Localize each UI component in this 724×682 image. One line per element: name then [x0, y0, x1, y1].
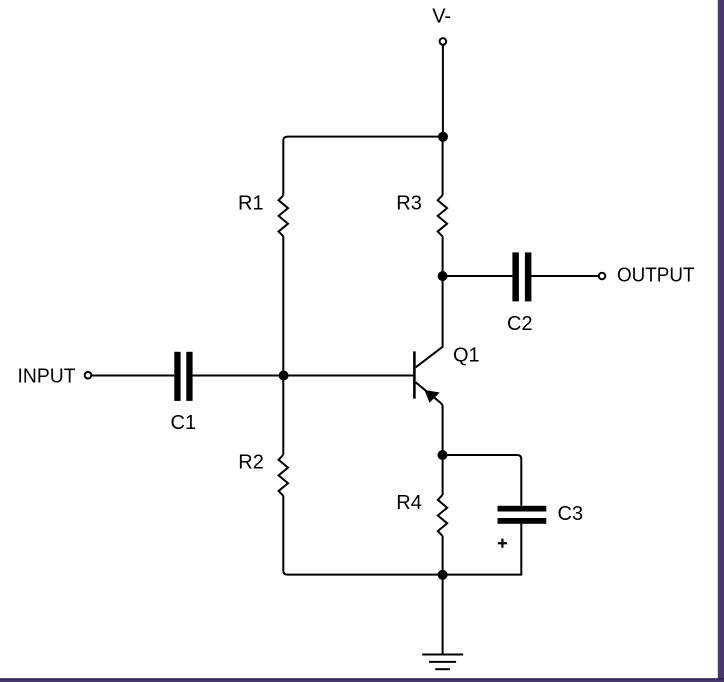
resistor R4 [438, 495, 447, 536]
wire V- terminal to node A [442, 45, 444, 137]
capacitor C3 [498, 506, 547, 524]
svg-text:R1: R1 [238, 193, 264, 215]
wire node A to R3 top [442, 137, 444, 196]
capacitor C1 [174, 352, 192, 401]
svg-text:Q1: Q1 [453, 344, 480, 366]
wire C2 to OUTPUT terminal [531, 275, 598, 277]
wire Q1 collector to node C [442, 276, 444, 348]
terminal OUTPUT [599, 273, 606, 280]
node B (base junction) [279, 371, 289, 381]
wire node D to C3 top (with corner) [443, 455, 522, 506]
node E (ground junction) [438, 570, 448, 580]
svg-text:OUTPUT: OUTPUT [617, 264, 695, 286]
wire node B to R2 top [282, 376, 284, 455]
svg-text:R4: R4 [396, 492, 422, 514]
transistor Q1 [413, 347, 443, 410]
wire node E to ground [442, 575, 444, 655]
wire R3 bottom to node C [442, 236, 444, 276]
svg-text:C3: C3 [558, 503, 584, 525]
svg-text:V-: V- [432, 6, 451, 28]
svg-text:C2: C2 [507, 313, 533, 335]
node A (junction) [438, 132, 448, 142]
ground [422, 655, 463, 670]
resistor R1 [279, 195, 288, 236]
svg-text:C1: C1 [171, 412, 197, 434]
terminal V- [440, 38, 447, 45]
wire R1 bottom to node B [282, 236, 284, 375]
polarity + mark [498, 539, 507, 548]
wire INPUT terminal to C1 [92, 375, 175, 377]
resistor R2 [279, 455, 288, 496]
resistor R3 [438, 195, 447, 236]
wire Q1 emitter to node D [442, 406, 444, 455]
svg-text:INPUT: INPUT [18, 366, 76, 388]
window frame right edge [718, 0, 724, 682]
node D (emitter junction) [438, 450, 448, 460]
wire R2 bottom along bottom rail to C3 bottom (with corners) [283, 496, 521, 575]
svg-text:R2: R2 [238, 451, 264, 473]
wire node D to R4 top [442, 455, 444, 495]
wire C1 to Q1 base (through node B) [193, 375, 414, 377]
terminal INPUT [85, 372, 92, 379]
node C (collector junction) [438, 271, 448, 281]
window frame bottom edge [0, 678, 724, 682]
wire top rail: node A to R1 top (with corner) [283, 137, 442, 196]
wire R4 bottom to node E [442, 536, 444, 575]
capacitor C2 [512, 252, 531, 301]
wire node C to C2 [443, 275, 513, 277]
svg-text:R3: R3 [396, 193, 422, 215]
